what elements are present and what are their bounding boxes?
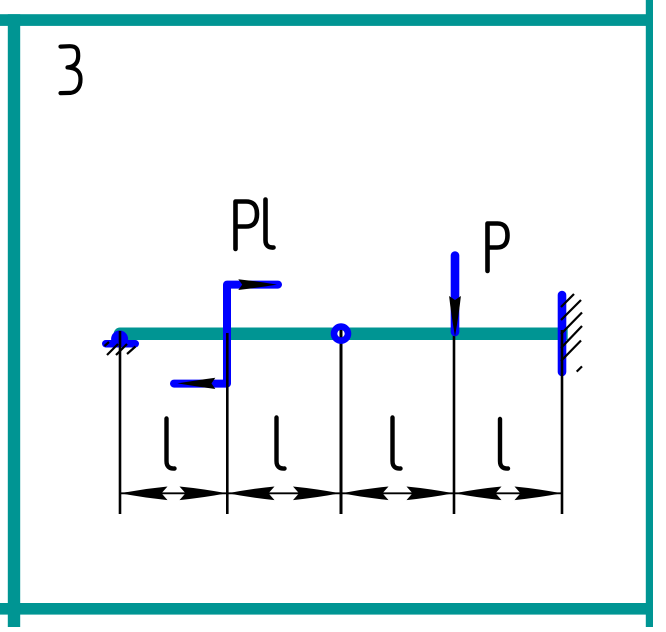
- frame left border: [8, 14, 20, 627]
- extension line at moment: [226, 333, 229, 514]
- dimension line: [120, 492, 562, 494]
- extension line at force P: [453, 333, 456, 514]
- frame top border: [0, 14, 653, 26]
- fixed wall support: blue bar: [558, 295, 567, 372]
- dimension label l segment 4: [500, 419, 508, 469]
- dimension label l segment 1: [167, 419, 175, 469]
- extension line at wall: [561, 330, 564, 514]
- pinned support A: hatch strokes: [105, 342, 136, 355]
- frame bottom border: [0, 603, 653, 615]
- extension line at hinge: [340, 329, 343, 514]
- dimension label l segment 3: [393, 418, 401, 469]
- hinge: blue ring: [334, 327, 348, 341]
- pinned support A: base bar: [102, 340, 139, 348]
- extension line at support A: [119, 331, 122, 514]
- moment couple: top arrow (right): [238, 279, 277, 290]
- hinge: white hole backing: [331, 324, 351, 344]
- label P: [488, 224, 508, 272]
- beam: [114, 327, 568, 340]
- dimension label l segment 2: [277, 418, 285, 469]
- force P: blue shaft: [451, 256, 460, 333]
- moment couple: bottom arrow (left): [178, 378, 216, 389]
- wall hatch strokes: [561, 294, 582, 372]
- force P: arrowhead (down): [449, 296, 461, 337]
- dimension arrows segment 3: [342, 487, 454, 501]
- label 3 (problem number): [61, 46, 81, 93]
- pinned support A: circle: [111, 331, 128, 348]
- frame right border: [646, 0, 653, 627]
- dimension arrows segment 2: [228, 487, 340, 501]
- label Pl: [236, 200, 274, 250]
- dimension arrows segment 1: [121, 487, 227, 501]
- dimension arrows segment 4: [455, 487, 562, 501]
- moment couple Pl: blue Z line: [174, 285, 278, 384]
